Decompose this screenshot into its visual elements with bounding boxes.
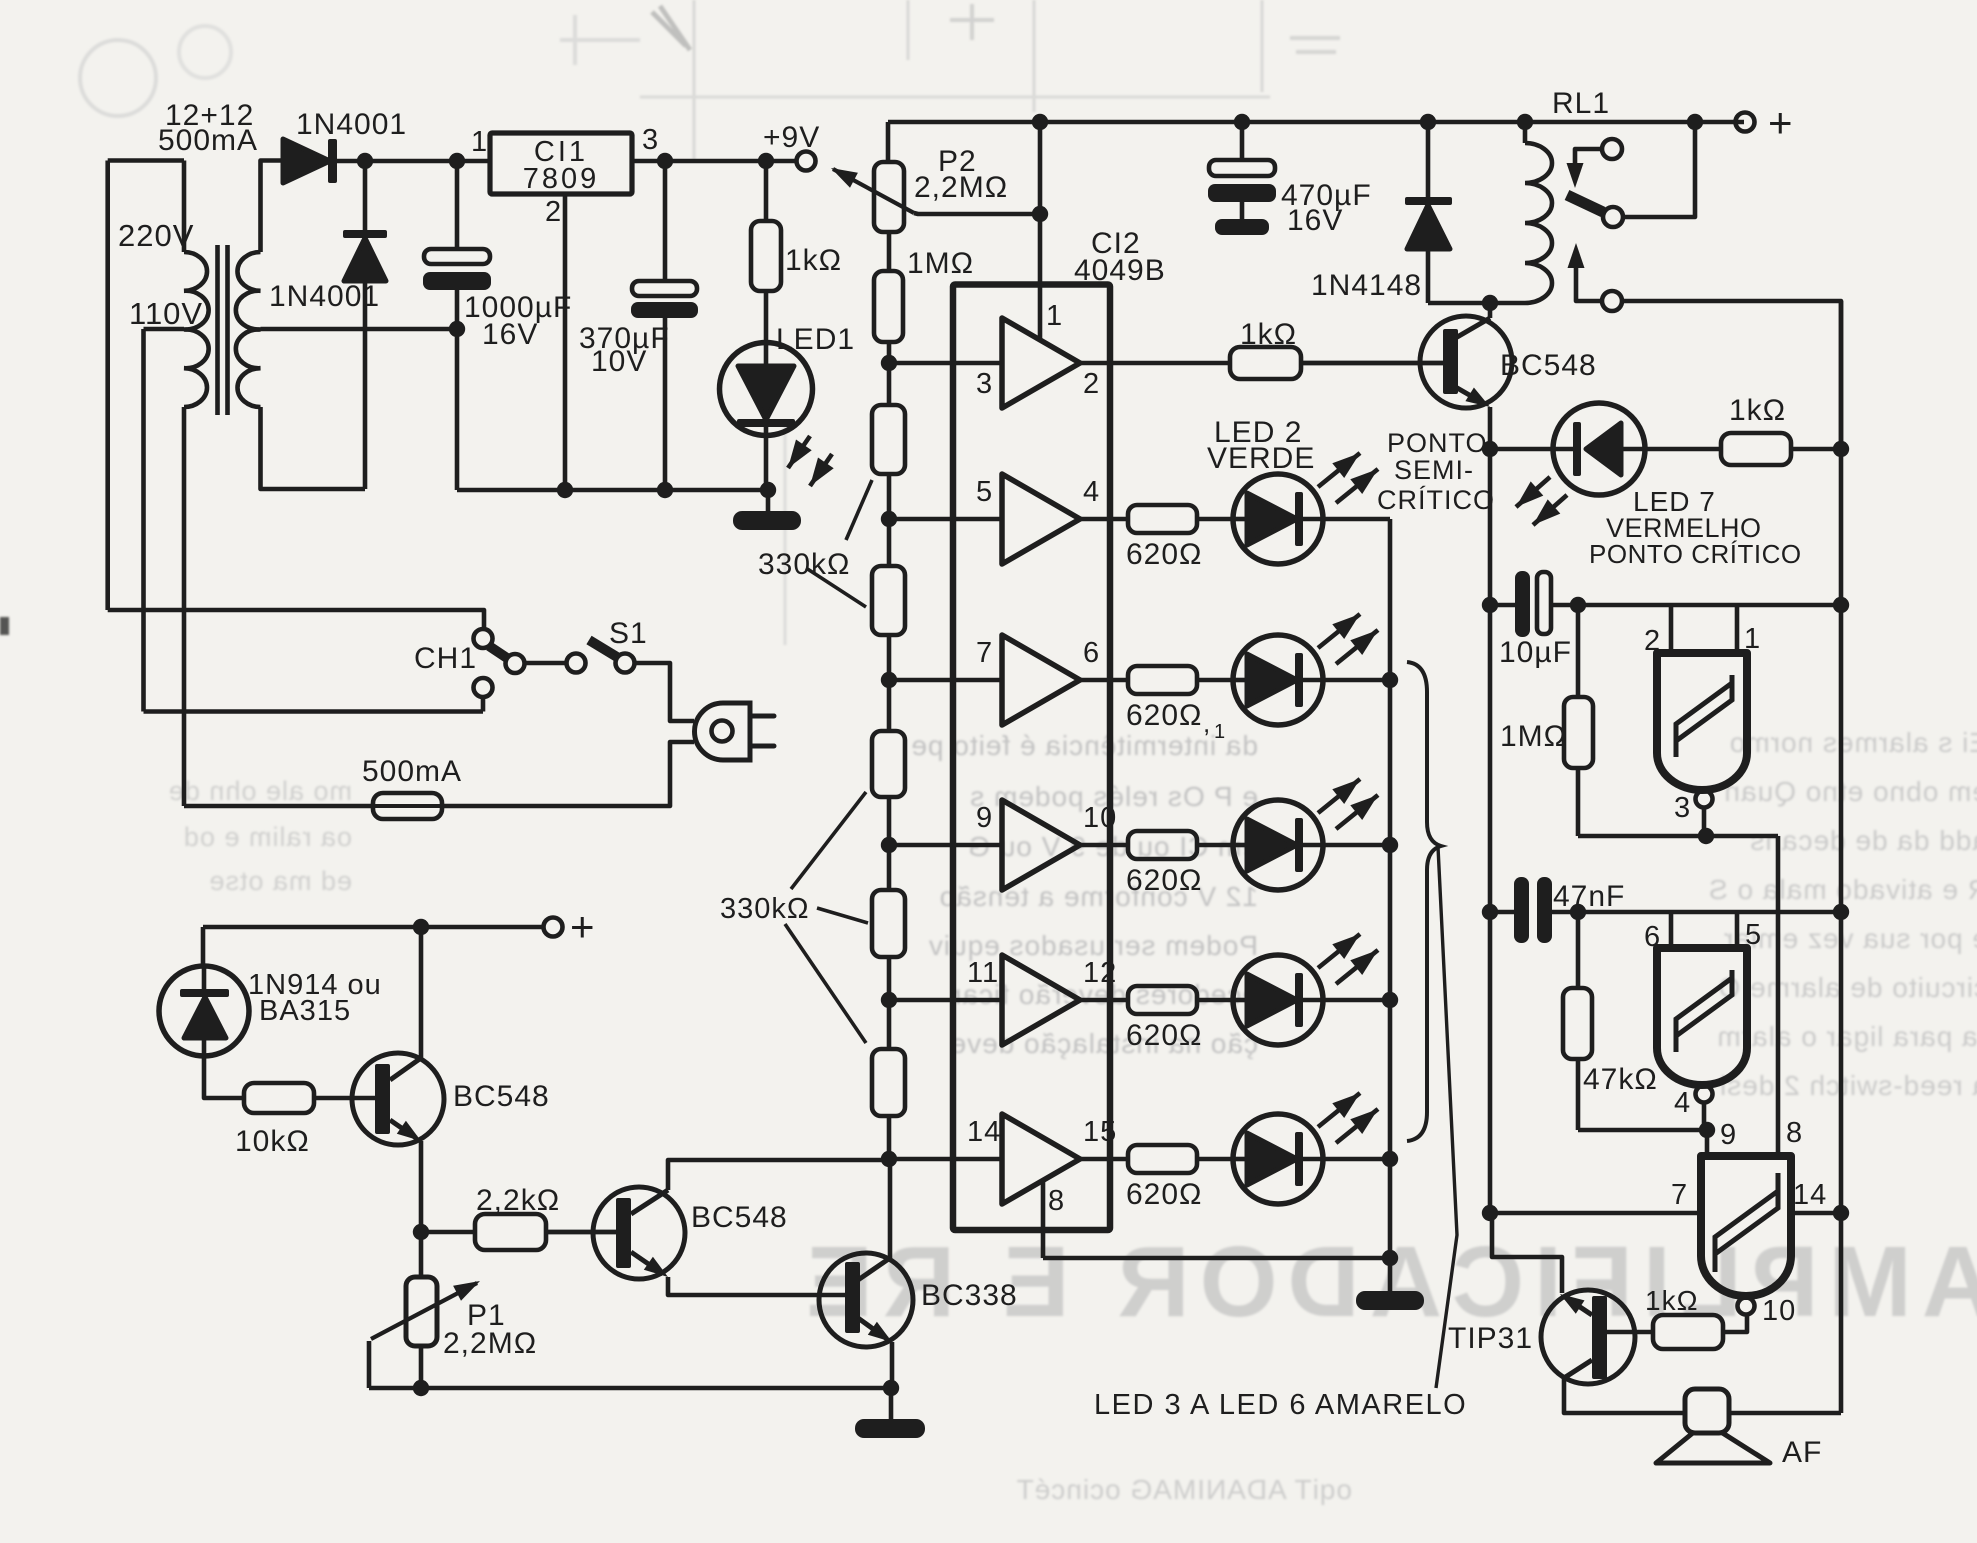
resistor 10k [244, 1083, 314, 1113]
svg-text:,: , [1203, 708, 1210, 738]
wire secondary bottom loop [261, 407, 366, 489]
svg-text:7809: 7809 [523, 163, 600, 195]
svg-text:TIP31: TIP31 [1448, 1322, 1533, 1355]
wire row 5 input [889, 517, 1002, 522]
inverter U2a [1002, 318, 1080, 408]
node LED bus [1382, 992, 1398, 1008]
svg-text:12 V conforme a tensão: 12 V conforme a tensão [939, 881, 1258, 912]
output row3 to 1k [1080, 361, 1230, 366]
wire center tap [261, 327, 458, 332]
svg-text:add da de decans: add da de decans [1749, 825, 1977, 856]
svg-text:BC338: BC338 [921, 1279, 1018, 1312]
inverter U2b [1002, 474, 1080, 564]
resistor 620R row 519 [1080, 517, 1128, 522]
svg-text:a reed-switch 2 desl: a reed-switch 2 desl [1719, 1070, 1977, 1101]
wire NO contact to right bus [1622, 301, 1841, 449]
svg-text:1MΩ: 1MΩ [1500, 720, 1567, 753]
node rail 1N4148 [1420, 114, 1436, 130]
LED1 light arrows [788, 436, 810, 468]
svg-text:620Ω: 620Ω [1126, 699, 1202, 732]
svg-text:9: 9 [976, 802, 993, 834]
svg-text:4049B: 4049B [1074, 254, 1166, 287]
fuse 500mA [373, 793, 442, 819]
svg-text:1: 1 [471, 126, 488, 158]
svg-text:oa ralim e od: oa ralim e od [183, 822, 352, 852]
sensor diode 1N914/BA315 [201, 927, 206, 966]
svg-text:3: 3 [976, 368, 993, 400]
svg-text:2,2MΩ: 2,2MΩ [443, 1327, 537, 1360]
relay contact top group [1602, 139, 1622, 159]
svg-text:2,2kΩ: 2,2kΩ [476, 1184, 560, 1217]
resistor ladder [887, 232, 892, 271]
svg-text:ed ma otse: ed ma otse [208, 866, 352, 896]
svg-text:BA315: BA315 [259, 995, 351, 1027]
inverter U2e [1002, 955, 1080, 1045]
transformer secondary winding [236, 252, 261, 407]
wire S1 to plug [634, 663, 694, 721]
svg-text:CRÍTICO: CRÍTICO [1377, 485, 1495, 515]
svg-text:AF: AF [1782, 1436, 1822, 1469]
svg-text:Ei s alarmes normo: Ei s alarmes normo [1729, 727, 1977, 758]
wire CI2 pin1 [1038, 214, 1043, 339]
svg-text:1N4001: 1N4001 [269, 280, 380, 313]
svg-text:10V: 10V [591, 345, 647, 378]
plug P [695, 703, 751, 760]
svg-text:+9V: +9V [763, 121, 820, 154]
svg-text:11: 11 [967, 957, 999, 989]
resistor 620R row 845 [1080, 843, 1128, 848]
wire row 3 input [889, 361, 1002, 366]
node out 370uF [657, 153, 673, 169]
svg-text:LED1: LED1 [776, 323, 855, 356]
bottom wire to BC338 emitter [421, 1386, 891, 1391]
svg-text:1N4148: 1N4148 [1311, 269, 1422, 302]
node ladder row 11 [881, 992, 897, 1008]
wire row 7 input [889, 678, 1002, 683]
capacitor 470uF [1240, 122, 1245, 160]
diode 1N4148 [1426, 122, 1431, 200]
svg-text:12: 12 [1083, 957, 1117, 989]
inverter U2d [1002, 800, 1080, 890]
resistor 2.2k [421, 1230, 475, 1235]
wire 220V top terminal [108, 158, 184, 163]
terminal +9V [797, 152, 816, 171]
node LED bus [1382, 1151, 1398, 1167]
node LED bus [1382, 672, 1398, 688]
diode D2 1N4001 vertical [363, 161, 368, 233]
svg-text:S1: S1 [609, 617, 648, 650]
svg-text:1: 1 [1046, 300, 1063, 332]
svg-text:mo ale ohn de: mo ale ohn de [168, 776, 352, 806]
node ladder row 14 [881, 1151, 897, 1167]
transistor Q5 TIP31 [1541, 1290, 1635, 1384]
capacitor 1000uF [455, 161, 460, 249]
resistor 1k LED7 [1645, 447, 1721, 452]
left bus right section [1488, 449, 1493, 1213]
relay contact bottom group [1568, 243, 1585, 268]
svg-text:5: 5 [976, 476, 993, 508]
capacitor 370uF [663, 161, 668, 281]
potentiometer P1 2.2M [419, 1232, 424, 1277]
svg-text:CH1: CH1 [414, 642, 477, 675]
terminal + sensor supply [203, 925, 543, 930]
svg-text:15: 15 [1083, 1116, 1117, 1148]
node LED bus [1382, 1250, 1398, 1266]
regulator CI1 7809 [490, 133, 632, 194]
svg-text:+: + [570, 903, 595, 950]
transistor Q3 BC338 [819, 1253, 913, 1347]
node rail 370uF [657, 482, 673, 498]
ground BC338 [889, 1388, 894, 1419]
wire CI1 pin2 [563, 194, 568, 490]
speaker AF [1685, 1389, 1729, 1433]
LED7 light arrows [1516, 477, 1550, 507]
IC CI2 4049B box [953, 285, 1110, 1231]
svg-text:2: 2 [545, 196, 562, 228]
svg-text:16V: 16V [1287, 204, 1343, 237]
resistor 620R row 680 [1080, 678, 1128, 683]
LED7 [1553, 403, 1645, 495]
NAND gate B [1657, 948, 1747, 1085]
svg-text:4: 4 [1674, 1087, 1691, 1119]
svg-text:1kΩ: 1kΩ [1240, 318, 1297, 351]
svg-text:110V: 110V [129, 296, 203, 331]
resistor 620R row 1159 [1080, 1157, 1128, 1162]
svg-text:1N4001: 1N4001 [296, 108, 407, 141]
svg-text:7: 7 [1671, 1179, 1688, 1211]
node rail relay coil [1517, 114, 1533, 130]
gate C pins 9,8 [1705, 1130, 1710, 1155]
svg-text:10: 10 [1083, 802, 1117, 834]
resistor 1M right [1576, 605, 1581, 697]
LED4 light arrows [1318, 779, 1360, 813]
transistor Q4 BC548 relay driver [1420, 316, 1512, 408]
wire row 14 input [889, 1157, 1002, 1162]
svg-text:oqiT ADANIMAG ocincéT: oqiT ADANIMAG ocincéT [1016, 1474, 1352, 1505]
svg-text:LED 3 A LED 6 AMARELO: LED 3 A LED 6 AMARELO [1094, 1389, 1467, 1421]
47nF row [1482, 904, 1498, 920]
LED6 light arrows [1318, 1093, 1360, 1127]
LED5 light arrows [1318, 934, 1360, 968]
LED1 [720, 343, 813, 436]
svg-text:14: 14 [967, 1116, 1001, 1148]
node rail LED1 [760, 482, 776, 498]
inverter U2c [1002, 635, 1080, 725]
LED3 [1233, 635, 1323, 725]
LED5 [1233, 955, 1323, 1045]
wire coil bottom [1428, 301, 1525, 306]
svg-text:PONTO: PONTO [1387, 428, 1488, 458]
LED1 ground [766, 490, 771, 513]
transistor Q1 BC548 sensor [352, 1053, 444, 1145]
node rail P2/CI2 [1032, 114, 1048, 130]
transformer primary winding [184, 252, 209, 407]
LED4 [1233, 800, 1323, 890]
svg-text:10: 10 [1762, 1295, 1796, 1327]
10uF row [1482, 597, 1498, 613]
svg-text:1kΩ: 1kΩ [1729, 394, 1786, 427]
node ladder row 3 [881, 355, 897, 371]
pointer to label [1436, 847, 1457, 1388]
svg-text:620Ω: 620Ω [1126, 538, 1202, 571]
ground LED bus [1356, 1291, 1424, 1310]
inverter U2f [1002, 1114, 1080, 1204]
svg-text:circuito de alarme O: circuito de alarme O [1717, 972, 1977, 1003]
svg-text:BC548: BC548 [1500, 349, 1597, 382]
svg-text:1kΩ: 1kΩ [785, 244, 842, 277]
svg-text:PONTO CRÍTICO: PONTO CRÍTICO [1589, 539, 1802, 569]
svg-text:1: 1 [1214, 721, 1225, 743]
svg-text:10µF: 10µF [1499, 636, 1572, 669]
top +12V rail [888, 120, 1744, 125]
node base divider [413, 1224, 429, 1240]
ground 470uF [1215, 219, 1269, 235]
svg-text:500mA: 500mA [362, 755, 462, 788]
node ladder row 9 [881, 837, 897, 853]
ground rail 0V [457, 488, 768, 493]
svg-text:620Ω: 620Ω [1126, 1178, 1202, 1211]
gate A pins 2,1 [1669, 605, 1674, 652]
resistor 1k LED1 [764, 161, 769, 221]
node raw+ B [449, 153, 465, 169]
LED3 light arrows [1318, 614, 1360, 648]
brace LED3-LED6 [1407, 662, 1441, 1141]
svg-text:330kΩ: 330kΩ [720, 893, 810, 925]
7/14 row [1490, 1211, 1700, 1216]
svg-text:9: 9 [1720, 1119, 1737, 1151]
svg-text:14: 14 [1793, 1179, 1827, 1211]
svg-text:3: 3 [1674, 792, 1691, 824]
svg-text:3: 3 [642, 124, 659, 156]
node ladder row 7 [881, 672, 897, 688]
right bus right section [1839, 301, 1844, 1413]
NAND gate A [1657, 653, 1747, 790]
svg-text:47nF: 47nF [1553, 880, 1625, 913]
svg-text:16V: 16V [482, 318, 538, 351]
svg-text:1kΩ: 1kΩ [1645, 1285, 1699, 1316]
terminal + battery [1736, 113, 1755, 132]
svg-text:8: 8 [1786, 1117, 1803, 1149]
svg-text:1MΩ: 1MΩ [907, 247, 974, 280]
transistor Q2 BC548 [593, 1187, 685, 1279]
LED2 light arrows [1318, 453, 1360, 487]
node raw+ A [357, 153, 373, 169]
svg-text:2: 2 [1083, 368, 1100, 400]
node rail 470uF [1234, 114, 1250, 130]
svg-text:BC548: BC548 [691, 1201, 788, 1234]
svg-text:620Ω: 620Ω [1126, 864, 1202, 897]
svg-text:330kΩ: 330kΩ [758, 548, 850, 581]
LED2 [1233, 474, 1323, 564]
LED cathode bus [1388, 519, 1393, 1291]
svg-text:47kΩ: 47kΩ [1583, 1063, 1658, 1096]
node LED bus [1382, 837, 1398, 853]
svg-text:8: 8 [1048, 1185, 1065, 1217]
svg-text:+: + [1768, 99, 1793, 146]
svg-text:4: 4 [1083, 476, 1100, 508]
resistor 620R row 1000 [1080, 998, 1128, 1003]
svg-text:500mA: 500mA [158, 124, 258, 157]
switch CH1 [108, 610, 484, 629]
wire pin3 to pin8 [1776, 836, 1781, 1155]
wire CI1 output [632, 159, 797, 164]
LED6 [1233, 1114, 1323, 1204]
NAND gate C [1701, 1156, 1791, 1296]
transformer core [215, 245, 220, 415]
svg-text:6: 6 [1083, 637, 1100, 669]
LED7 row [1482, 441, 1498, 457]
wire row 9 input [889, 843, 1002, 848]
wire 110V tap [144, 327, 185, 332]
svg-text:VERDE: VERDE [1207, 442, 1315, 475]
switch S1 [524, 661, 566, 666]
svg-text:BC548: BC548 [453, 1080, 550, 1113]
gate B pins 6,5 [1669, 912, 1674, 947]
diode D1 1N4001 top [261, 161, 284, 253]
svg-text:620Ω: 620Ω [1126, 1019, 1202, 1052]
svg-text:7: 7 [976, 637, 993, 669]
wire gate A out row [1578, 834, 1778, 839]
svg-text:2,2MΩ: 2,2MΩ [914, 171, 1008, 204]
potentiometer P2 2.2M [886, 122, 891, 162]
svg-text:em obno etno Quan: em obno etno Quan [1723, 776, 1977, 807]
TIP31 output network [1723, 1315, 1747, 1332]
svg-text:220V: 220V [118, 218, 194, 253]
node ladder row 5 [881, 511, 897, 527]
node rail pin2 [557, 482, 573, 498]
node rail contact return [1687, 114, 1703, 130]
svg-text:10kΩ: 10kΩ [235, 1125, 310, 1158]
resistor 47k [1576, 912, 1581, 988]
svg-text:ção na instalação deve: ção na instalação deve [950, 1028, 1258, 1059]
wire plug to fuse [442, 742, 694, 806]
svg-text:SEMI-: SEMI- [1394, 455, 1474, 485]
wire row 11 input [889, 998, 1002, 1003]
svg-text:RL1: RL1 [1552, 87, 1610, 120]
resistor 1k base BC548 relay [1230, 347, 1301, 379]
node out 1k [758, 153, 774, 169]
relay RL1 coil [1523, 122, 1528, 143]
svg-text:ra para ligar o alarm: ra para ligar o alarm [1716, 1021, 1977, 1052]
